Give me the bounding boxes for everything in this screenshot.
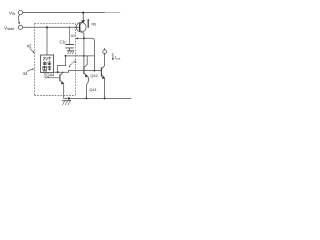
node junction at x84 y56 bbox=[83, 55, 85, 57]
wire bottom rail bbox=[64, 97, 131, 99]
Q41 base bar bbox=[83, 67, 85, 73]
box text line1 bbox=[43, 57, 51, 70]
current arrow Iout bbox=[112, 53, 114, 59]
box text line3 bbox=[43, 67, 51, 71]
Q45 emitter with arrow bbox=[80, 22, 84, 25]
Q45 collector bbox=[80, 30, 84, 33]
node junction collector node bbox=[83, 37, 85, 39]
svg-text:Q44: Q44 bbox=[46, 72, 55, 77]
node junction base feed bbox=[93, 70, 95, 72]
Q42 emitter with arrow bbox=[101, 75, 104, 78]
Q44 base bar bbox=[59, 75, 61, 81]
wire horizontal y56 bbox=[66, 55, 95, 57]
wire Q45 emitter to rail bbox=[82, 13, 84, 22]
svg-text:Q42: Q42 bbox=[90, 73, 98, 78]
wire box corner to base line riser bbox=[57, 71, 68, 73]
svg-text:Iout: Iout bbox=[115, 55, 121, 61]
wire capacitor C1 top lead bbox=[69, 27, 71, 44]
Q44 emitter with arrow bbox=[60, 80, 64, 83]
node junction rail Q42 bbox=[104, 97, 106, 99]
node junction at x47 on Vstart line bbox=[46, 26, 48, 28]
svg-text:Q41: Q41 bbox=[89, 87, 97, 92]
switch arm between Vin and Vstart bbox=[17, 15, 20, 23]
svg-text:40: 40 bbox=[71, 34, 75, 38]
wire top rail Vin bbox=[23, 12, 105, 14]
wire box top pin bbox=[46, 27, 48, 55]
Q45 base bar bbox=[79, 24, 81, 31]
wire base line y70.6 bbox=[69, 70, 102, 72]
wire C1 bottom lead bbox=[69, 48, 71, 51]
transistor Q45 (PNP, top) bbox=[76, 22, 86, 32]
wire Vstart line bbox=[23, 26, 80, 28]
terminal Vin bbox=[18, 11, 22, 15]
node junction rail ground bbox=[68, 97, 70, 99]
svg-text:42: 42 bbox=[27, 44, 32, 49]
terminal Iout output circle bbox=[103, 50, 107, 54]
svg-text:41: 41 bbox=[73, 59, 78, 64]
box bottom pin terminal bbox=[44, 70, 46, 72]
box text line2 bbox=[43, 62, 51, 66]
node junction at x65.5 y56 bbox=[65, 55, 67, 57]
Q41 collector diag bbox=[84, 56, 87, 68]
wire Q41 emitter down to rail bbox=[86, 76, 88, 98]
wire vertical node line x84 bbox=[83, 38, 85, 67]
bar mark right of Q45 bbox=[87, 20, 89, 28]
wire Q42 emitter down to rail bbox=[104, 78, 106, 98]
wire box pin to Q44 base bbox=[45, 73, 60, 78]
wire Q44 emitter down to rail bbox=[63, 83, 65, 98]
node junction rail Q41 bbox=[85, 97, 87, 99]
leader arrow 42 bbox=[30, 49, 34, 52]
svg-text:44: 44 bbox=[23, 71, 28, 76]
node junction at x69.5 on Vstart line bbox=[69, 27, 71, 29]
wire zig from box to y56 line bbox=[54, 56, 66, 72]
wire Q45 collector down bbox=[83, 33, 85, 38]
node junction Q45 emitter at rail bbox=[82, 12, 84, 14]
svg-text:R6: R6 bbox=[92, 23, 97, 27]
ground under C1 bbox=[67, 50, 74, 52]
Q41 emitter with arrow bbox=[84, 73, 88, 76]
Q42 collector diag bbox=[101, 55, 104, 69]
Q42 base bar bbox=[100, 68, 102, 76]
block start-detection circuit box bbox=[41, 55, 54, 73]
svg-text:VIN: VIN bbox=[9, 11, 16, 17]
Q44 collector diag bbox=[60, 72, 63, 75]
svg-text:Vstart: Vstart bbox=[4, 25, 14, 31]
node junction at box corner wire bbox=[57, 71, 59, 73]
ground bottom bbox=[68, 98, 70, 100]
dashed block 40 boundary bbox=[35, 24, 76, 96]
capacitor C1 bbox=[66, 44, 74, 46]
terminal Vstart bbox=[18, 25, 22, 29]
wire collector node to right and down bbox=[84, 38, 95, 70]
leader arrow 44 bbox=[28, 69, 34, 71]
